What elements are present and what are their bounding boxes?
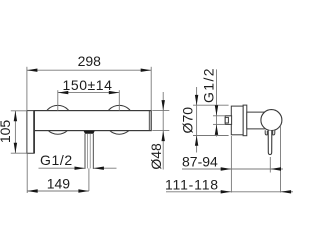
escutcheon circle left	[43, 105, 72, 134]
side O70 extension top	[193, 104, 229, 106]
side view: escutcheon plate	[231, 106, 243, 135]
111-118 left arrow (outside, pointing right)	[221, 190, 232, 193]
side view: lever shaft	[268, 131, 272, 155]
87-94 right extension (lever)	[269, 157, 271, 173]
O48 arrows (outside, pointing inward)	[162, 100, 165, 111]
dim 298 extension right	[150, 67, 152, 111]
298 arrows (inside, pointing outward)	[27, 69, 38, 72]
dim 105 extension bottom	[11, 152, 27, 154]
side O70 dim line	[196, 87, 198, 153]
side view: wall ring	[243, 105, 247, 136]
G1/2 leader line front left	[39, 167, 86, 169]
dim 150 extension right	[118, 90, 120, 110]
111-118 right arrow (outside, pointing left)	[281, 190, 292, 193]
111-118 right head tail	[281, 191, 294, 193]
side view: body cylinder	[247, 112, 265, 129]
87-94 dim line tail under text	[182, 168, 231, 170]
dim 105 extension top	[11, 110, 27, 112]
svg-text:87-94: 87-94	[182, 154, 218, 170]
svg-text:149: 149	[47, 175, 71, 191]
svg-text:G1/2: G1/2	[40, 152, 73, 168]
G1/2 front arrow right (tip at stub right)	[93, 167, 104, 170]
dim O48 extension bottom	[152, 130, 169, 132]
mixer bar body	[34, 111, 151, 131]
dim 150 extension left	[57, 90, 59, 110]
outlet stub inner lines	[87, 134, 89, 169]
G1/2 leader line front right	[93, 167, 116, 169]
svg-text:Ø48: Ø48	[148, 143, 164, 170]
87-94 right arrow (outside, pointing left)	[271, 167, 282, 170]
111-118 dim line tail under text	[166, 191, 231, 193]
dim O48 line	[162, 92, 164, 170]
left reference extension (plate face)	[230, 136, 232, 193]
stub center extension down to 149 dim	[88, 168, 90, 191]
149 arrows (inside, pointing outward)	[27, 189, 38, 192]
87-94 dim line middle	[231, 168, 270, 170]
bar right end cap line	[148, 111, 150, 131]
outlet nipple dark cap	[84, 131, 95, 134]
side G1/2 extension bottom	[213, 123, 225, 125]
side view: inlet stub inner step	[225, 117, 228, 123]
150 arrows (inside, pointing outward)	[58, 91, 69, 94]
wall elbow L-part	[27, 111, 34, 154]
side view: lever hook left	[265, 130, 267, 135]
dim 298 line	[27, 69, 151, 71]
svg-text:111-118: 111-118	[165, 176, 219, 192]
side G1/2 dim line	[216, 69, 218, 136]
dim 150 line	[58, 92, 120, 94]
L-part right edge thick	[33, 111, 35, 154]
side O70 arrows (outside, pointing inward)	[195, 95, 198, 106]
dim 105 line	[14, 111, 16, 153]
side view dimension lines	[166, 69, 293, 192]
svg-text:298: 298	[78, 53, 102, 69]
105 arrows (inside, pointing outward)	[14, 111, 17, 122]
outlet stub outer lines	[84, 134, 86, 169]
dim O48 extension top	[152, 110, 169, 112]
87-94 left arrow (outside, pointing right)	[221, 167, 232, 170]
svg-text:Ø70: Ø70	[179, 107, 195, 134]
G1/2 front arrow left (tip at stub left)	[75, 167, 86, 170]
svg-text:G1/2: G1/2	[201, 67, 217, 103]
side view: handle dome circle	[261, 110, 282, 131]
111-118 dim line middle	[231, 191, 280, 193]
side O70 extension bottom	[193, 135, 229, 137]
side G1/2 arrows (outside, pointing inward)	[215, 105, 218, 116]
87-94 right head tail	[270, 168, 283, 170]
svg-text:105: 105	[0, 120, 13, 144]
side view: inlet stub	[225, 116, 231, 125]
side G1/2 extension top	[213, 115, 225, 117]
111-118 right extension (circle edge)	[280, 126, 282, 193]
dim 149 extension left	[26, 153, 28, 193]
side view: lever hook right	[273, 130, 275, 135]
svg-text:150±14: 150±14	[63, 77, 113, 93]
dim 149 line	[27, 190, 89, 192]
escutcheon circle right	[105, 105, 134, 134]
front view dimension lines	[11, 67, 170, 193]
dim 298 extension left	[26, 67, 28, 111]
